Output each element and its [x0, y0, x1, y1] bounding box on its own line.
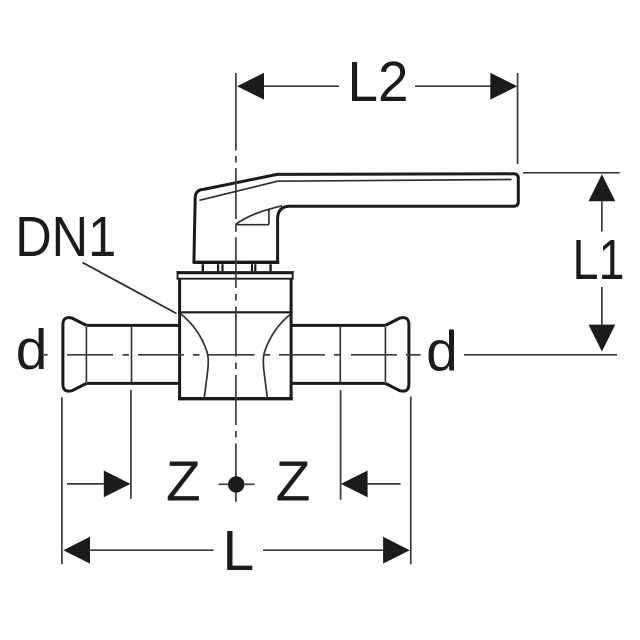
right socket bead: [385, 318, 409, 392]
lever hub base: [193, 261, 279, 264]
L1 top arrowhead: [589, 174, 616, 201]
svg-text:L: L: [223, 519, 255, 583]
stem serration tick 1: [217, 264, 219, 271]
DN1 leader line: [83, 263, 177, 314]
svg-text:d: d: [426, 319, 458, 383]
extension line Z left: [130, 390, 132, 499]
L2 left arrowhead: [237, 73, 264, 100]
stem serration left edge: [202, 264, 204, 271]
bonnet flange bottom edge: [177, 278, 294, 280]
body collar separation line: [178, 311, 292, 313]
Z right arrowhead: [341, 471, 368, 498]
stem serration tick 3: [251, 264, 253, 271]
L right arrowhead: [383, 537, 410, 564]
body waist contour right: [263, 314, 291, 399]
valve body bottom edge: [178, 397, 293, 400]
left tube top edge: [86, 324, 179, 327]
left bead inner edge: [85, 327, 87, 382]
extension line L left: [61, 397, 63, 564]
stem serration right edge: [269, 264, 271, 271]
L dimension line: [90, 549, 383, 551]
lever top chamfer line: [199, 180, 511, 201]
right press socket end line: [339, 327, 341, 382]
extension line L right: [410, 397, 412, 565]
valve body left edge: [178, 280, 181, 399]
L2 dimension line: [264, 73, 518, 164]
L1 bottom arrowhead: [589, 325, 616, 352]
center mark tick left: [219, 483, 229, 485]
left tube bottom edge: [86, 382, 179, 385]
svg-text:Z: Z: [166, 450, 201, 514]
left socket bead: [63, 318, 87, 392]
center dot: [228, 476, 244, 492]
right tube bottom edge: [291, 382, 385, 385]
Z left dimension: [67, 483, 104, 485]
lever thumb tab curve: [235, 206, 282, 225]
L1 dimension line: [464, 173, 620, 355]
center mark tick right: [245, 483, 255, 485]
L left arrowhead: [63, 537, 90, 564]
stem serration tick 4: [254, 264, 256, 271]
left press socket end line: [131, 327, 133, 382]
bonnet flange left cap: [177, 271, 179, 279]
bonnet flange right cap: [292, 271, 294, 279]
stem serration tick 2: [221, 264, 223, 271]
bonnet flange top edge: [177, 271, 294, 274]
svg-text:Z: Z: [276, 450, 311, 514]
lever tab edge vertical: [268, 209, 270, 225]
right bead inner edge: [384, 327, 386, 382]
L2 right arrowhead: [490, 73, 517, 100]
valve body right edge: [290, 280, 293, 399]
body waist contour left: [180, 314, 208, 399]
horizontal centerline: [44, 354, 421, 356]
svg-text:L2: L2: [348, 50, 409, 114]
lever handle outline: [194, 174, 518, 263]
svg-text:d: d: [16, 318, 48, 382]
svg-text:DN1: DN1: [15, 205, 116, 269]
svg-text:L1: L1: [573, 228, 625, 292]
lever tab bottom line: [236, 224, 269, 226]
extension line Z right: [340, 390, 342, 500]
vertical centerline: [235, 73, 237, 502]
Z left arrowhead: [104, 471, 131, 498]
right tube top edge: [291, 324, 385, 327]
Z right dimension tail: [368, 483, 401, 485]
